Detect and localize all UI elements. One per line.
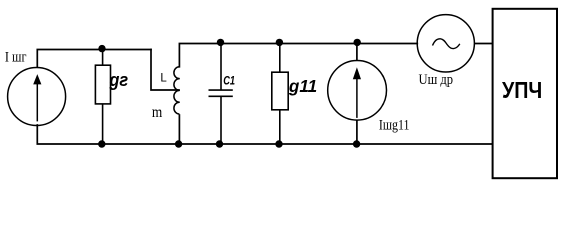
wire: jog down to inductor tap (151, 50, 179, 91)
svg-text:L: L (160, 72, 167, 84)
svg-text:Uш др: Uш др (419, 72, 454, 88)
node dot: C1 bottom (216, 140, 223, 147)
inductor L (tapped coil) (174, 67, 180, 114)
wire: bottom rail (37, 125, 492, 144)
svg-text:Iшg11: Iшg11 (379, 118, 410, 134)
node dot: C1 top (217, 39, 224, 46)
arrow shaft of I shg (36, 80, 38, 121)
resistor gg (95, 50, 110, 145)
svg-text:g11: g11 (288, 76, 317, 96)
node dot: I shg11 bottom (353, 140, 360, 147)
wire: AC source to UPCH box (474, 43, 492, 45)
svg-text:m: m (152, 104, 162, 121)
node dot: gg bottom (98, 140, 105, 147)
node dot: I shg11 top (354, 39, 361, 46)
resistor g11 (272, 44, 288, 145)
wire: top-left rail from current source to tap jog (37, 50, 151, 68)
current source I shg11 (328, 44, 387, 145)
svg-text:I шг: I шг (5, 50, 27, 66)
svg-text:УПЧ: УПЧ (502, 77, 542, 103)
svg-text:gг: gг (108, 70, 128, 90)
wire: coil bottom stub (178, 114, 180, 144)
wire: upper rail (179, 44, 417, 67)
coil cusp ticks (176, 79, 179, 103)
capacitor C1 (209, 44, 233, 145)
current source I shg (left circle) (8, 68, 66, 126)
AC noise source U sh dr (417, 15, 474, 72)
svg-text:C1: C1 (223, 74, 235, 88)
arrowhead of I shg11 (353, 67, 361, 79)
node dot: g11 bottom (275, 140, 282, 147)
node dot: gg top (98, 45, 105, 52)
node dot: g11 top (276, 39, 283, 46)
arrowhead of I shg (33, 74, 41, 84)
UPCH box (493, 9, 557, 178)
sine wave inside AC source (433, 39, 460, 49)
node dot: inductor bottom (175, 140, 182, 147)
